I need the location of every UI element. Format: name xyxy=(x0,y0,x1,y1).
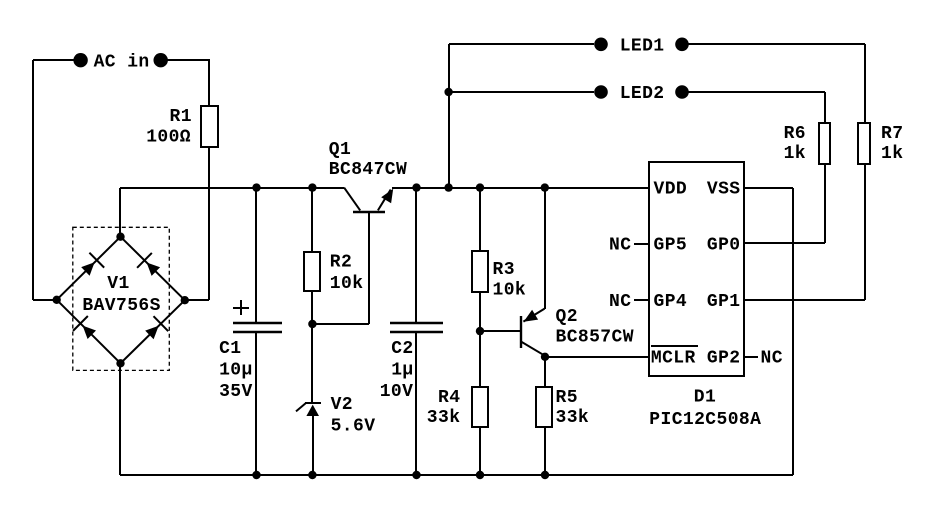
svg-text:C1: C1 xyxy=(219,339,241,359)
svg-text:NC: NC xyxy=(609,292,631,312)
svg-text:LED1: LED1 xyxy=(620,37,665,57)
svg-text:1k: 1k xyxy=(784,144,806,164)
svg-text:BAV756S: BAV756S xyxy=(82,296,160,316)
svg-text:GP2: GP2 xyxy=(707,348,741,368)
svg-text:33k: 33k xyxy=(427,408,461,428)
svg-text:R3: R3 xyxy=(493,260,515,280)
svg-text:R1: R1 xyxy=(170,107,192,127)
svg-text:GP0: GP0 xyxy=(707,236,741,256)
svg-text:R2: R2 xyxy=(330,253,352,273)
svg-text:V1: V1 xyxy=(107,274,129,294)
svg-text:PIC12C508A: PIC12C508A xyxy=(649,410,761,430)
svg-text:35V: 35V xyxy=(219,382,253,402)
svg-text:R7: R7 xyxy=(881,124,903,144)
svg-text:GP5: GP5 xyxy=(654,236,688,256)
svg-text:D1: D1 xyxy=(694,388,716,408)
svg-text:AC in: AC in xyxy=(94,53,150,73)
svg-text:VDD: VDD xyxy=(654,179,688,199)
svg-text:NC: NC xyxy=(761,348,783,368)
svg-text:R5: R5 xyxy=(556,388,578,408)
svg-text:BC857CW: BC857CW xyxy=(556,328,634,348)
svg-text:VSS: VSS xyxy=(707,179,741,199)
svg-text:BC847CW: BC847CW xyxy=(329,160,407,180)
svg-text:R4: R4 xyxy=(438,388,460,408)
svg-text:Q1: Q1 xyxy=(329,140,351,160)
svg-text:10k: 10k xyxy=(493,281,527,301)
svg-text:R6: R6 xyxy=(784,124,806,144)
svg-text:NC: NC xyxy=(609,236,631,256)
svg-text:Q2: Q2 xyxy=(556,307,578,327)
svg-text:GP4: GP4 xyxy=(654,292,688,312)
svg-text:1k: 1k xyxy=(881,144,903,164)
svg-text:MCLR: MCLR xyxy=(651,348,696,368)
svg-text:C2: C2 xyxy=(391,339,413,359)
svg-text:GP1: GP1 xyxy=(707,292,741,312)
svg-text:33k: 33k xyxy=(556,408,590,428)
svg-text:10k: 10k xyxy=(330,274,364,294)
svg-text:10µ: 10µ xyxy=(219,360,253,380)
svg-text:5.6V: 5.6V xyxy=(331,417,376,437)
svg-text:10V: 10V xyxy=(380,382,414,402)
svg-text:V2: V2 xyxy=(331,395,353,415)
svg-text:1µ: 1µ xyxy=(391,360,413,380)
svg-text:LED2: LED2 xyxy=(620,84,665,104)
svg-text:100Ω: 100Ω xyxy=(146,128,191,148)
